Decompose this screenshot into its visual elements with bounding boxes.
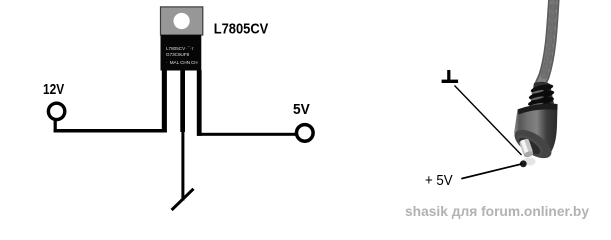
svg-text:12V: 12V [43,82,64,98]
svg-text:L7805CV ·¯⋅т: L7805CV ·¯⋅т [166,45,195,51]
svg-text:L7805CV: L7805CV [214,20,269,37]
svg-text:5V: 5V [293,102,310,118]
svg-text:· MAL CHN СН: · MAL CHN СН [166,60,198,65]
svg-text:+ 5V: + 5V [425,173,453,189]
svg-text:G73C9UF8: G73C9UF8 [166,52,190,57]
svg-text:shasik для forum.onliner.by: shasik для forum.onliner.by [405,203,589,219]
